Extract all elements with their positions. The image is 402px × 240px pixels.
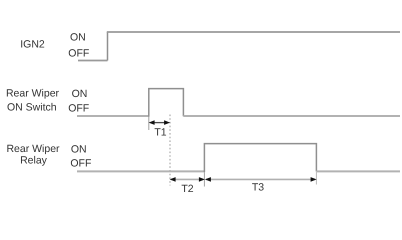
svg-text:OFF: OFF bbox=[68, 47, 89, 59]
wire IGN2 rising edge bbox=[107, 32, 109, 61]
tick below switch rising edge bbox=[148, 117, 150, 130]
svg-text:T1: T1 bbox=[154, 127, 166, 139]
svg-text:Relay: Relay bbox=[20, 154, 48, 166]
svg-text:ON: ON bbox=[70, 31, 86, 43]
wire switch OFF right segment bbox=[183, 115, 400, 117]
tick below relay falling edge bbox=[315, 172, 317, 184]
wire relay OFF right segment bbox=[316, 170, 400, 172]
svg-text:OFF: OFF bbox=[70, 157, 91, 169]
svg-text:IGN2: IGN2 bbox=[20, 39, 45, 51]
dotted reference line bbox=[169, 115, 171, 186]
svg-text:T3: T3 bbox=[252, 181, 264, 193]
svg-text:ON: ON bbox=[72, 88, 88, 100]
wire relay pulse bbox=[204, 144, 316, 173]
wire relay OFF left segment bbox=[77, 170, 204, 172]
wire IGN2 OFF segment bbox=[78, 60, 108, 62]
svg-text:ON Switch: ON Switch bbox=[7, 101, 57, 113]
wire switch pulse bbox=[149, 89, 184, 117]
svg-text:T2: T2 bbox=[181, 183, 193, 195]
arrow T1 bbox=[149, 120, 171, 125]
wire switch OFF left segment bbox=[77, 115, 149, 117]
svg-text:OFF: OFF bbox=[68, 102, 89, 114]
arrow T2 bbox=[170, 177, 205, 182]
svg-text:ON: ON bbox=[71, 144, 87, 156]
arrow T3 bbox=[205, 177, 317, 182]
tick below relay rising edge bbox=[203, 172, 205, 186]
svg-text:Rear Wiper: Rear Wiper bbox=[6, 88, 60, 100]
wire IGN2 ON segment bbox=[107, 31, 400, 33]
